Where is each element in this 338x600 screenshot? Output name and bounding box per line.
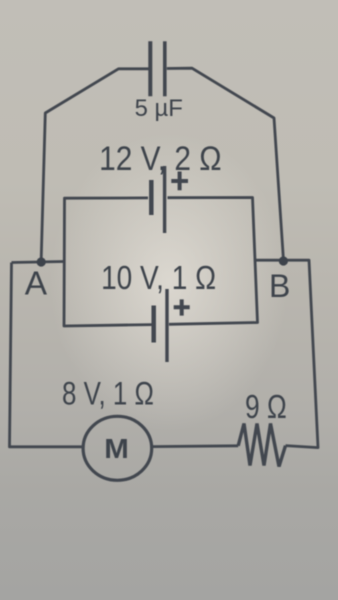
svg-text:5 µF: 5 µF	[135, 95, 183, 122]
svg-text:A: A	[25, 265, 48, 302]
svg-text:10 V, 1 Ω: 10 V, 1 Ω	[101, 260, 216, 297]
svg-text:M: M	[104, 434, 129, 465]
svg-text:9 Ω: 9 Ω	[245, 389, 287, 425]
svg-text:12 V, 2 Ω: 12 V, 2 Ω	[99, 139, 221, 177]
svg-text:B: B	[269, 268, 290, 304]
svg-text:8 V, 1 Ω: 8 V, 1 Ω	[62, 376, 154, 412]
